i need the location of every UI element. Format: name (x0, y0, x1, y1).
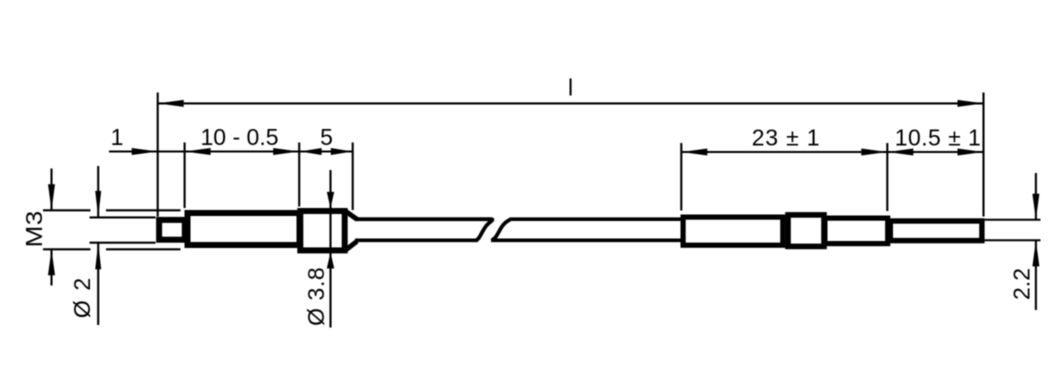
extension line at 681.3 (680, 143, 682, 211)
probe tip (ø2) (159, 220, 185, 240)
svg-text:M3: M3 (23, 210, 48, 247)
threaded body M3 (188, 213, 300, 245)
tail line top (985, 219, 1041, 221)
M3 extension top (43, 209, 91, 211)
extension line at 887.3 (886, 143, 888, 211)
arrow 10.5 left (887, 149, 913, 156)
extension line at 352.7 (352, 143, 354, 211)
arrow l right (958, 100, 984, 107)
arrow 23 left (681, 149, 707, 156)
cable right bottom edge (491, 238, 684, 242)
arrow 10-0.5 left (185, 148, 211, 155)
extension line left of dimension l (157, 93, 159, 217)
cable break right curve (492, 219, 511, 240)
taper top edge (345, 211, 357, 219)
arrow 2.2 bottom (up) (1032, 240, 1039, 266)
arrow 2.2 top (down) (1032, 194, 1039, 220)
ø2 dimension line top segment (97, 166, 99, 217)
arrow M3 bottom (up) (48, 249, 55, 275)
cable left bottom edge (355, 238, 478, 242)
arrow 5 right (331, 148, 353, 155)
dimension row line left (109, 150, 353, 152)
cable left top edge (355, 219, 492, 240)
ø2 extension bottom (90, 242, 156, 244)
M3 dimension line top segment (50, 169, 52, 210)
sleeve block 2 (ring) (788, 215, 824, 247)
arrow dim 1 (outside, pointing right) (132, 148, 158, 155)
arrow ø2 top (down) (95, 191, 101, 218)
svg-text:Ø 2: Ø 2 (69, 276, 95, 318)
2.2 dimension line top segment (1035, 173, 1037, 219)
sleeve block 1 (683, 217, 783, 245)
M3 extension bottom (43, 248, 91, 250)
2.2 dimension line bottom segment (1035, 241, 1037, 310)
arrow ø3.8 top (down) (327, 192, 334, 208)
arrow l left (158, 100, 184, 107)
ø2 extension top (90, 216, 156, 218)
extension line at 184.6 (184, 143, 186, 209)
arrow 10.5 right (958, 149, 984, 156)
svg-text:23 ± 1: 23 ± 1 (752, 124, 821, 150)
dimension line l (158, 102, 984, 104)
sleeve block 3 (825, 218, 888, 244)
sleeve ø3.8 (300, 211, 344, 250)
arrow 23 right (861, 149, 887, 156)
ø3.8 dimension line (329, 170, 331, 328)
tail line bottom (985, 239, 1041, 241)
end sleeve block 4 (2.2) (890, 221, 982, 241)
extension line at 299.2 (298, 143, 300, 207)
arrow 5 left (300, 148, 322, 155)
svg-text:5: 5 (320, 124, 333, 150)
arrow ø3.8 bottom (up) (327, 252, 334, 268)
ø2 dimension line bottom segment (97, 243, 99, 325)
svg-text:10 - 0.5: 10 - 0.5 (201, 124, 279, 150)
svg-text:10.5 ± 1: 10.5 ± 1 (895, 124, 982, 150)
arrow M3 top (down) (48, 184, 55, 210)
extension line right of dimension l (982, 93, 984, 217)
arrow ø2 bottom (up) (95, 243, 101, 270)
svg-text:l: l (568, 75, 573, 101)
M3 dimension line bottom segment (50, 250, 52, 286)
svg-text:2.2: 2.2 (1009, 268, 1035, 300)
cable right top edge (510, 217, 684, 221)
dimension row line right (681, 151, 983, 153)
svg-text:1: 1 (111, 124, 124, 150)
arrow 10-0.5 right (273, 148, 299, 155)
svg-text:Ø 3.8: Ø 3.8 (303, 267, 329, 326)
taper bottom edge (345, 241, 357, 250)
